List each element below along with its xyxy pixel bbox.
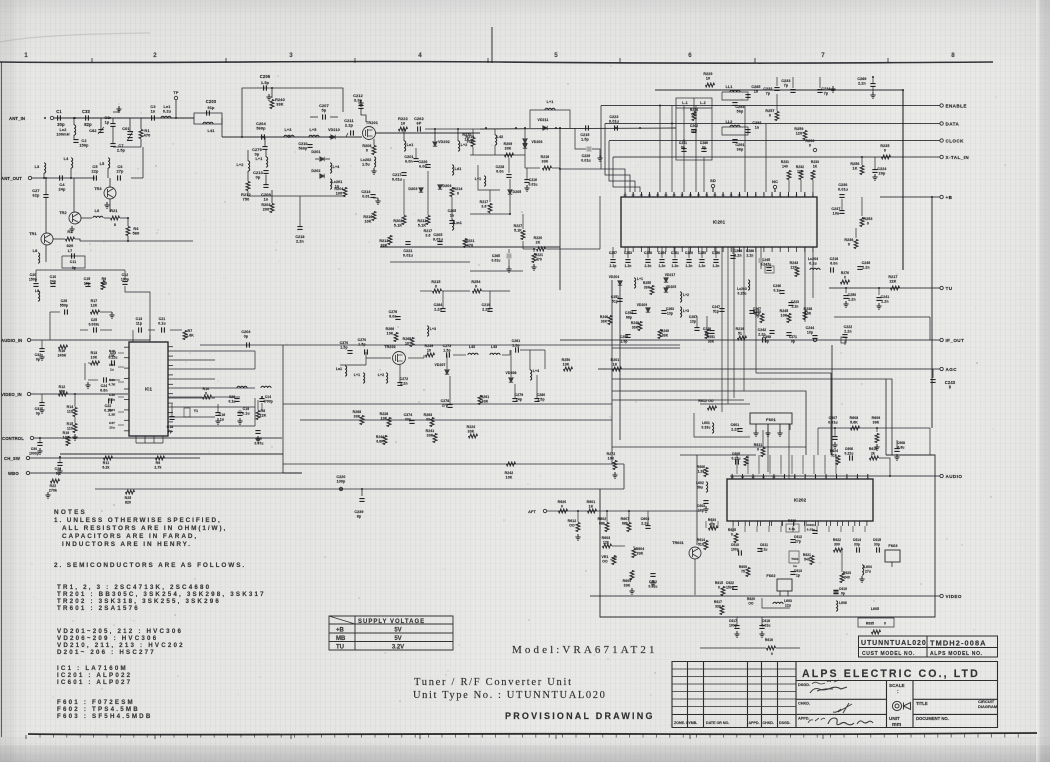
- svg-text:C601: C601: [731, 423, 740, 427]
- svg-text:R202: R202: [393, 219, 402, 223]
- NC pin stub: [773, 185, 776, 188]
- svg-text:C605: C605: [732, 452, 740, 456]
- extra IC201 top feeds: [703, 157, 705, 192]
- svg-text:C272: C272: [400, 377, 409, 381]
- inductor L42b: [680, 292, 682, 302]
- svg-text:C220: C220: [336, 475, 345, 479]
- capacitor C215: [586, 125, 589, 130]
- net y404: [283, 403, 612, 405]
- svg-text:C223: C223: [791, 300, 799, 304]
- svg-text:R215: R215: [431, 280, 440, 284]
- svg-text:C201: C201: [404, 155, 413, 159]
- resistor R215: [433, 289, 442, 293]
- trunk y128 extension: [480, 128, 676, 129]
- svg-text:TR2: TR2: [59, 211, 67, 215]
- svg-text:R254: R254: [471, 280, 480, 284]
- resistor R25: [126, 490, 135, 494]
- svg-text:0: 0: [561, 505, 563, 509]
- svg-text:1n: 1n: [755, 126, 760, 130]
- svg-text:R263: R263: [424, 413, 433, 417]
- svg-text:C26: C26: [229, 395, 235, 399]
- resistor R611b: [744, 457, 748, 466]
- capacitor C217: [401, 173, 406, 176]
- svg-text:2.2n: 2.2n: [881, 300, 888, 304]
- long top right trunk: [655, 90, 903, 270]
- +B bus vertical: [931, 197, 933, 428]
- resistor R250b: [760, 314, 764, 323]
- wire y169 bus: [560, 168, 601, 170]
- svg-text:L42: L42: [497, 135, 504, 139]
- trimmer C01: [127, 132, 132, 135]
- svg-text:R617: R617: [714, 600, 722, 604]
- resistor R222: [399, 127, 408, 131]
- svg-text:1.5p: 1.5p: [261, 81, 270, 85]
- svg-text:C82: C82: [89, 129, 96, 133]
- capacitor C241: [878, 288, 880, 295]
- svg-text:R219: R219: [736, 327, 745, 331]
- svg-text:10K: 10K: [781, 314, 788, 318]
- svg-text:22p: 22p: [92, 170, 100, 174]
- svg-text:Ld1: Ld1: [455, 167, 462, 171]
- svg-text:R201: R201: [611, 358, 620, 362]
- svg-text:0.01u: 0.01u: [828, 421, 837, 425]
- capacitor C27: [43, 195, 48, 198]
- svg-text:C26: C26: [61, 299, 68, 303]
- svg-text:R250: R250: [753, 310, 761, 314]
- svg-text:C202: C202: [690, 124, 698, 128]
- wire TR1 down: [45, 245, 47, 262]
- svg-text:AFT: AFT: [528, 510, 536, 514]
- svg-text:C14: C14: [265, 395, 271, 399]
- svg-text:C219: C219: [482, 303, 491, 307]
- svg-text:C278: C278: [441, 399, 450, 403]
- svg-text:R611: R611: [754, 443, 763, 447]
- capacitor C398: [769, 331, 774, 334]
- capacitor C253: [627, 247, 629, 258]
- svg-text:C223: C223: [609, 115, 618, 119]
- resistor R1: [139, 130, 143, 139]
- svg-text:R220: R220: [534, 236, 543, 240]
- svg-text:R249: R249: [661, 329, 669, 333]
- svg-text:10: 10: [706, 77, 710, 81]
- capacitor C254b: [631, 311, 636, 314]
- vertical x697: [696, 455, 698, 545]
- resistor R21: [111, 216, 120, 220]
- capacitor C223: [615, 125, 618, 130]
- svg-text:UTUNNTUAL020: UTUNNTUAL020: [861, 640, 927, 647]
- resistor R211: [426, 216, 430, 225]
- svg-text:2.2u: 2.2u: [641, 522, 648, 526]
- svg-text:1.2n: 1.2n: [699, 264, 706, 268]
- svg-text:12: 12: [752, 475, 756, 479]
- svg-text:R20: R20: [109, 378, 115, 382]
- svg-text:L4: L4: [64, 157, 69, 161]
- resistor R265: [410, 338, 414, 347]
- svg-text:VD205: VD205: [666, 285, 677, 289]
- svg-text:1.5p: 1.5p: [443, 349, 450, 353]
- resistor R250: [564, 367, 573, 371]
- svg-text:R240: R240: [275, 98, 285, 102]
- svg-text:6.8K: 6.8K: [376, 440, 384, 444]
- capacitor C24: [104, 377, 107, 382]
- svg-text:R272: R272: [607, 452, 616, 456]
- svg-text:DATE OR NO.: DATE OR NO.: [706, 721, 729, 725]
- svg-text:0.01u: 0.01u: [403, 254, 413, 258]
- svg-text:33K: 33K: [482, 400, 489, 404]
- svg-text:0: 0: [884, 149, 886, 153]
- svg-text:C618: C618: [762, 619, 770, 623]
- svg-text:100mH: 100mH: [56, 133, 69, 137]
- svg-text:R607: R607: [621, 517, 630, 521]
- svg-text:ALPS MODEL NO.: ALPS MODEL NO.: [930, 651, 983, 657]
- svg-text:3.6: 3.6: [481, 205, 486, 209]
- svg-text:PROVISIONAL DRAWING: PROVISIONAL DRAWING: [505, 711, 655, 721]
- svg-text:TR202 : 3SK318, 3SK255, 3SK: TR202 : 3SK318, 3SK255, 3SK296: [57, 598, 221, 605]
- svg-text:R221: R221: [465, 239, 474, 243]
- svg-text:TR202: TR202: [384, 345, 396, 349]
- signature APPD: [808, 718, 873, 725]
- resistor R214: [450, 188, 454, 197]
- svg-text:VD210: VD210: [328, 128, 340, 132]
- wire row2 vertical: [142, 147, 144, 178]
- resistor R242: [507, 462, 516, 466]
- svg-text:L5: L5: [100, 162, 105, 166]
- svg-text:1n: 1n: [450, 214, 454, 218]
- resistor R260: [813, 148, 816, 151]
- svg-text:C01: C01: [122, 127, 129, 131]
- capacitor C10: [50, 284, 55, 287]
- svg-text:C16: C16: [219, 413, 226, 417]
- wire to LC loop: [171, 117, 194, 119]
- svg-text:0.15u: 0.15u: [738, 292, 747, 296]
- capacitor C17: [255, 431, 260, 434]
- resistor R7: [183, 331, 187, 340]
- capacitor C611: [757, 549, 762, 552]
- svg-text:10K: 10K: [805, 312, 812, 316]
- svg-text:6.0n: 6.0n: [830, 262, 837, 266]
- svg-text:C222: C222: [844, 325, 853, 329]
- net y420: [300, 419, 612, 421]
- resistor R228: [387, 418, 391, 427]
- svg-text:VR1: VR1: [601, 555, 608, 559]
- inductor L43e: [490, 353, 500, 355]
- svg-text:2. SEMICONDUCTORS ARE AS FOLLO: 2. SEMICONDUCTORS ARE AS FOLLOWS.: [54, 562, 246, 569]
- svg-text:+B: +B: [336, 628, 345, 634]
- svg-text:R256: R256: [850, 162, 859, 166]
- svg-text:560p: 560p: [299, 147, 308, 151]
- capacitor C608: [894, 449, 899, 452]
- svg-text:5.1K: 5.1K: [514, 229, 522, 233]
- svg-text:33p: 33p: [854, 543, 860, 547]
- inductor L41c: [363, 373, 365, 383]
- resistor R236: [854, 240, 858, 249]
- capacitor C222b: [842, 335, 847, 338]
- svg-text:10: 10: [427, 349, 431, 353]
- net y455 right: [680, 454, 756, 456]
- svg-text:2.2n: 2.2n: [844, 330, 851, 334]
- svg-text:VIDEO: VIDEO: [946, 594, 962, 599]
- resistor R202: [402, 216, 406, 225]
- svg-text:R615: R615: [715, 581, 723, 585]
- diode D202: [320, 174, 324, 178]
- svg-text:C617: C617: [729, 619, 737, 623]
- svg-text:2k: 2k: [871, 452, 875, 456]
- inductor L42d: [495, 135, 497, 145]
- wire AFT verticals: [577, 511, 579, 522]
- svg-text:R254: R254: [690, 108, 698, 112]
- capacitor C15: [85, 284, 90, 287]
- resistor R212a: [246, 182, 250, 191]
- svg-text:MB: MB: [336, 636, 346, 642]
- vertical x813b: [812, 247, 814, 298]
- svg-text:R242: R242: [505, 471, 514, 475]
- svg-text:C254: C254: [625, 311, 633, 315]
- svg-text:200: 200: [263, 208, 269, 212]
- capacitor C612: [790, 540, 795, 543]
- svg-text:CAPACITORS ARE IN FARAD,: CAPACITORS ARE IN FARAD,: [62, 533, 198, 540]
- inductor L666: [836, 601, 838, 611]
- svg-text:1n: 1n: [151, 110, 156, 114]
- svg-text:C242: C242: [758, 328, 767, 332]
- svg-text:VD217: VD217: [665, 273, 676, 277]
- F601 gnd stubs: [753, 430, 758, 436]
- svg-text:R222: R222: [398, 117, 408, 121]
- svg-text:L+3: L+3: [284, 128, 291, 132]
- LC loop LL2: [722, 127, 748, 135]
- net y247 mid: [380, 246, 560, 248]
- svg-text:R232: R232: [796, 165, 804, 169]
- svg-text:12k: 12k: [603, 541, 609, 545]
- wire L605: [872, 630, 881, 634]
- svg-text:C211: C211: [344, 119, 353, 123]
- svg-text:C25: C25: [91, 318, 97, 322]
- svg-text:C212: C212: [353, 94, 363, 98]
- svg-text:L+1: L+1: [547, 100, 554, 104]
- svg-text:INDUCTORS ARE IN HENRY.: INDUCTORS ARE IN HENRY.: [62, 541, 192, 548]
- svg-text:1.2n: 1.2n: [625, 264, 632, 268]
- svg-text:OO: OO: [602, 560, 608, 564]
- capacitor C233: [792, 77, 794, 88]
- svg-text:CH_SW: CH_SW: [4, 456, 21, 461]
- svg-text:Lc202: Lc202: [361, 158, 372, 162]
- capacitor C5: [94, 175, 97, 180]
- capacitor C247: [719, 309, 724, 312]
- capacitor C211: [351, 130, 354, 135]
- svg-text:VD210, 211, 213 : HVC202: VD210, 211, 213 : HVC202: [57, 642, 185, 649]
- svg-text:IC202: IC202: [794, 498, 807, 503]
- svg-text:R9: R9: [156, 461, 161, 465]
- wire y249 to stair: [599, 196, 601, 249]
- capacitor C607: [832, 437, 837, 440]
- svg-text:L+4: L+4: [333, 165, 340, 169]
- svg-text:L601: L601: [702, 421, 710, 425]
- svg-text:1u: 1u: [793, 564, 797, 568]
- svg-text:1.2n: 1.2n: [672, 264, 679, 268]
- resistor R607: [627, 523, 631, 532]
- svg-text:2.2n: 2.2n: [734, 254, 741, 258]
- svg-text:2.2n: 2.2n: [858, 82, 866, 86]
- svg-text:C32: C32: [35, 353, 42, 357]
- svg-text:C5: C5: [92, 165, 97, 169]
- capacitor C259: [701, 247, 703, 258]
- svg-text:36p: 36p: [737, 148, 744, 152]
- svg-text:C3: C3: [150, 105, 155, 109]
- resistor R610: [870, 456, 879, 460]
- resistor R609b: [875, 434, 879, 443]
- transistor TR202: [393, 352, 406, 365]
- svg-text:56p: 56p: [737, 110, 744, 114]
- svg-text:R621: R621: [803, 553, 811, 557]
- svg-text:1u: 1u: [110, 368, 114, 372]
- capacitor C284: [440, 309, 445, 312]
- capacitor C218: [297, 227, 302, 230]
- resistor R217b: [488, 204, 492, 213]
- svg-text:Tuner / R/F Converter Unit: Tuner / R/F Converter Unit: [414, 677, 573, 688]
- svg-text:R210: R210: [363, 215, 372, 219]
- svg-text:F601: F601: [766, 417, 776, 422]
- svg-text:C615: C615: [873, 538, 881, 542]
- resistor R6b: [101, 281, 105, 290]
- wires from nets to IC top: [671, 124, 673, 193]
- svg-text:13: 13: [741, 475, 745, 479]
- svg-text:Lc2: Lc2: [60, 128, 67, 132]
- capacitor C232: [776, 77, 778, 86]
- wire F601 area: [700, 403, 750, 405]
- svg-text:APPD.: APPD.: [749, 721, 760, 725]
- svg-text:IC1: IC1: [145, 387, 153, 392]
- resistor R270: [471, 138, 475, 147]
- svg-text:C287: C287: [689, 315, 697, 319]
- diode VD209: [646, 308, 650, 312]
- capacitor C219: [487, 309, 492, 312]
- svg-text:C275: C275: [252, 148, 262, 152]
- svg-text:C8: C8: [104, 116, 109, 120]
- svg-text:CLOCK: CLOCK: [946, 138, 965, 143]
- staircase nets to IC201: [601, 106, 625, 193]
- svg-text:2: 2: [153, 52, 157, 59]
- svg-text:L603: L603: [784, 599, 792, 603]
- svg-text:C234: C234: [821, 87, 830, 91]
- capacitor C224: [872, 170, 877, 173]
- capacitor C234: [819, 77, 821, 88]
- svg-text:L604: L604: [864, 565, 872, 569]
- net IF_OUT: [560, 339, 940, 341]
- svg-text:NOTES: NOTES: [54, 509, 87, 516]
- svg-text:C239: C239: [354, 510, 363, 514]
- capacitor C1: [58, 115, 61, 120]
- svg-text:L+2: L+2: [683, 293, 689, 297]
- resistor R612: [576, 523, 580, 532]
- resistor R620b: [559, 509, 568, 513]
- svg-text:1.5u: 1.5u: [362, 163, 370, 167]
- svg-text:100p: 100p: [731, 548, 739, 552]
- svg-text:C232: C232: [763, 87, 772, 91]
- svg-text:R244: R244: [376, 435, 384, 439]
- svg-text:DSGD.: DSGD.: [779, 721, 790, 725]
- svg-text:1K: 1K: [613, 363, 618, 367]
- resistor R2: [66, 237, 75, 241]
- capacitor C226: [425, 165, 430, 168]
- long net D y489: [95, 488, 624, 490]
- filter F601: [750, 413, 792, 424]
- svg-text:R259: R259: [794, 127, 803, 131]
- svg-text:0: 0: [844, 276, 846, 280]
- svg-text:0.1u: 0.1u: [761, 548, 768, 552]
- resistor R623: [840, 574, 844, 583]
- diode VD203: [523, 139, 527, 143]
- svg-text:C279: C279: [515, 393, 524, 397]
- svg-text:9p: 9p: [72, 266, 76, 270]
- capacitor C265: [437, 242, 442, 245]
- svg-text:33p: 33p: [874, 543, 880, 547]
- svg-text:L-1: L-1: [682, 101, 688, 105]
- capacitor C272: [397, 383, 402, 386]
- svg-text:L605: L605: [871, 607, 879, 611]
- svg-text:R13: R13: [91, 351, 98, 355]
- svg-text:R608: R608: [850, 416, 859, 420]
- svg-text:C370: C370: [340, 341, 349, 345]
- LC loop LL1: [722, 92, 748, 100]
- svg-text:VD211: VD211: [538, 118, 549, 122]
- svg-text:6.0n: 6.0n: [419, 165, 427, 169]
- svg-text:R217: R217: [888, 275, 897, 279]
- svg-text:2K: 2K: [536, 241, 541, 245]
- wire audio path: [879, 458, 890, 476]
- svg-text:10: 10: [405, 342, 409, 346]
- capacitor C249: [857, 267, 862, 270]
- svg-text:L606: L606: [839, 601, 847, 605]
- svg-text:C608: C608: [897, 441, 905, 445]
- svg-text:68p: 68p: [626, 316, 632, 320]
- capacitor C258: [647, 247, 649, 258]
- svg-text:11p: 11p: [136, 322, 142, 326]
- svg-text:R2: R2: [67, 230, 72, 234]
- capacitor C291: [732, 140, 737, 143]
- svg-text:C4: C4: [59, 183, 65, 187]
- wire y155: [470, 154, 525, 156]
- svg-text:R209: R209: [504, 142, 513, 146]
- LC tank C203 L41: [194, 113, 222, 118]
- svg-text:L+1: L+1: [354, 373, 360, 377]
- capacitor C619: [833, 591, 838, 594]
- svg-text:3.2V: 3.2V: [392, 645, 404, 651]
- capacitor C271: [786, 333, 791, 336]
- svg-text:0: 0: [848, 243, 850, 247]
- svg-text:0: 0: [205, 392, 207, 396]
- resistor R251: [705, 330, 709, 339]
- capacitor C3: [152, 115, 155, 120]
- capacitor C602: [650, 574, 655, 577]
- svg-text:2.2K: 2.2K: [109, 413, 117, 417]
- svg-text:WBO: WBO: [8, 471, 19, 476]
- ground near C8: [116, 106, 121, 112]
- svg-text:C216: C216: [830, 257, 839, 261]
- svg-text:510: 510: [698, 543, 704, 547]
- svg-text:2.2n: 2.2n: [482, 308, 489, 312]
- capacitor C29: [57, 463, 62, 466]
- svg-text:IC201: IC201: [713, 220, 726, 225]
- capacitor C289: [870, 84, 875, 87]
- capacitor C22: [109, 398, 112, 403]
- svg-text:1: 1: [24, 52, 28, 59]
- svg-text:12u: 12u: [785, 604, 791, 608]
- resistor R221: [463, 239, 467, 248]
- svg-text:Unit Type No. : UTUNNTUAL020: Unit Type No. : UTUNNTUAL020: [413, 690, 606, 701]
- svg-text:R268: R268: [353, 410, 362, 414]
- capacitor C216c: [524, 180, 529, 183]
- svg-text:1n: 1n: [754, 90, 759, 94]
- svg-text:0: 0: [884, 622, 886, 626]
